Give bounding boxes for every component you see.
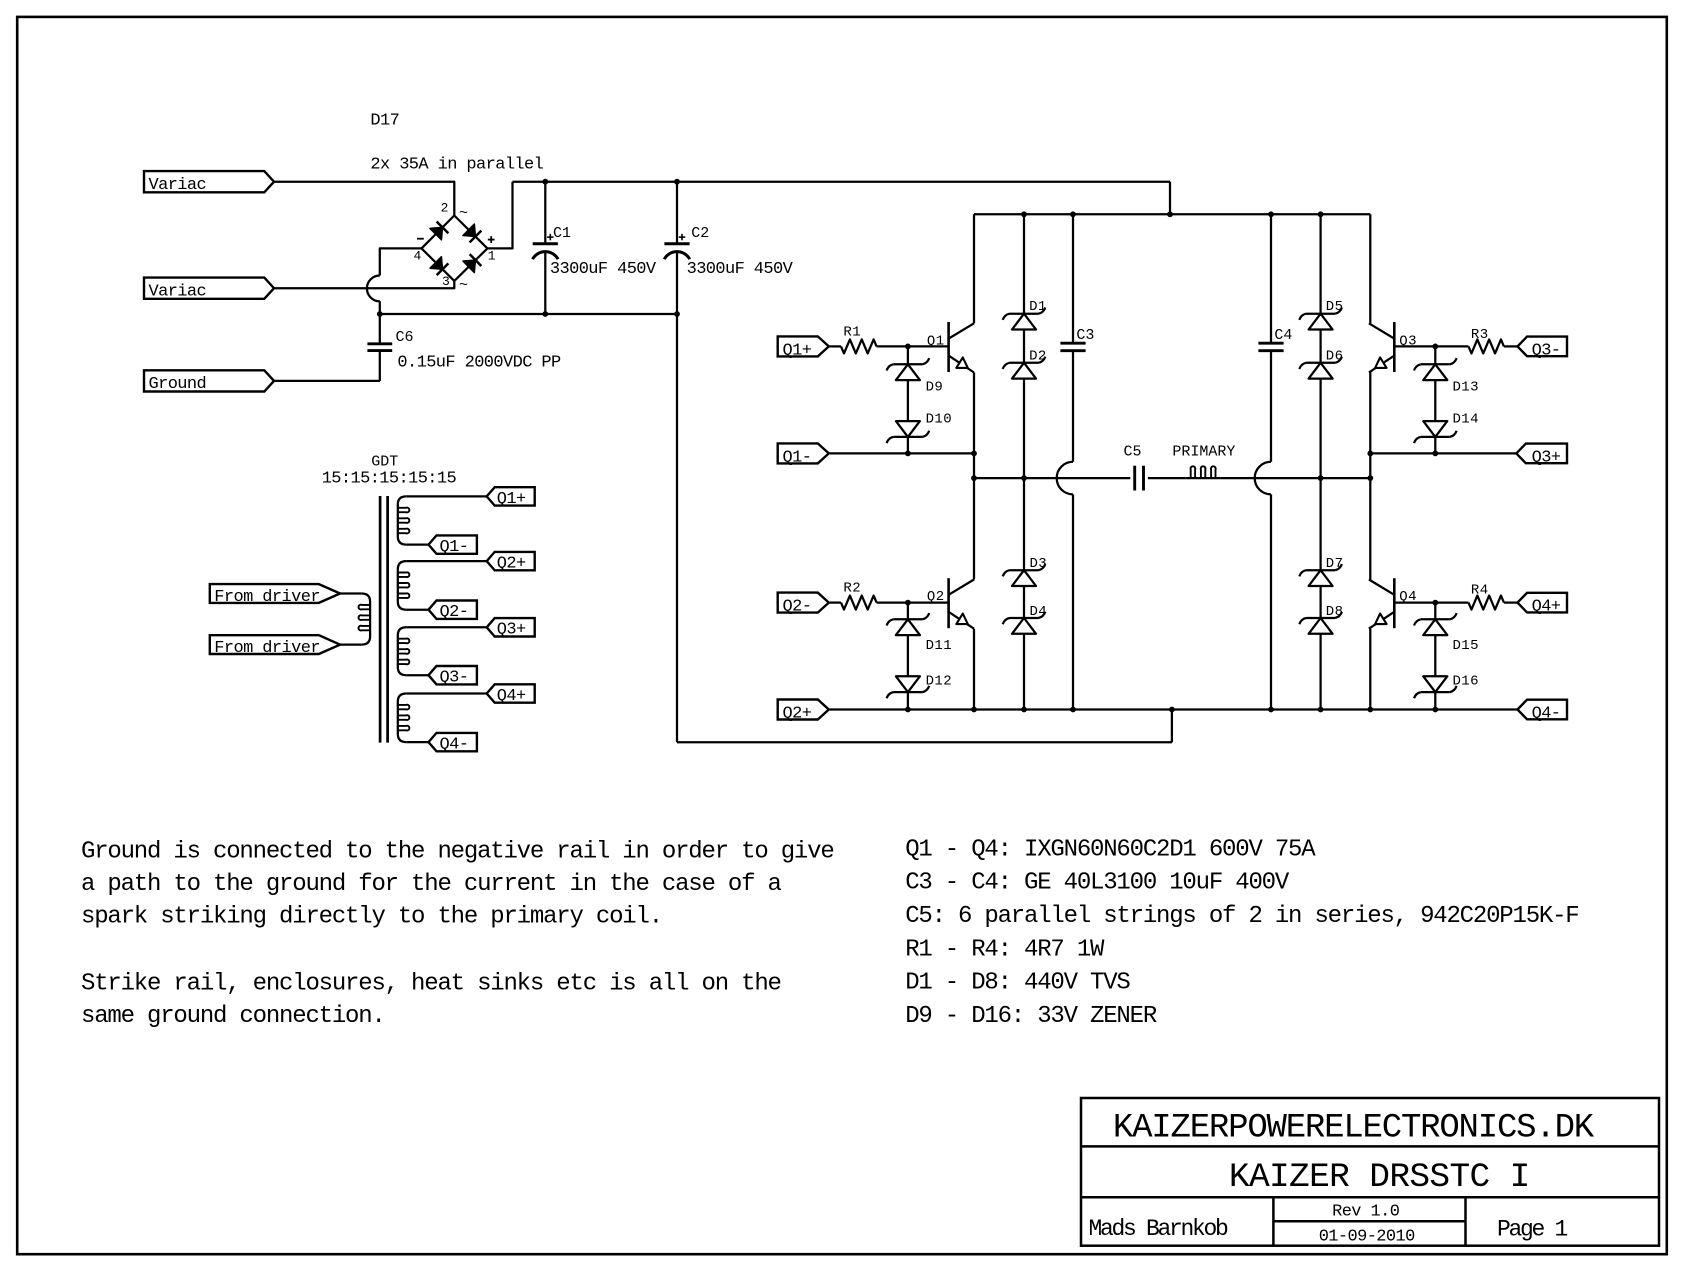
wire bridge pin 3 to Variac2 <box>274 281 454 288</box>
resistor R3 <box>1469 339 1504 353</box>
bus negative rail <box>380 313 677 315</box>
capacitor C1 <box>544 182 546 243</box>
svg-text:Q3+: Q3+ <box>1532 449 1561 468</box>
svg-text:Q3-: Q3- <box>1532 342 1561 361</box>
svg-text:R2: R2 <box>843 581 861 597</box>
capacitor C4 <box>1270 214 1272 343</box>
connector flag Q4+ (gate) <box>1518 593 1568 613</box>
svg-text:Q2+: Q2+ <box>783 705 812 724</box>
TVS D4 <box>1010 617 1039 619</box>
junction dots gate rows <box>905 344 911 350</box>
svg-text:Q2+: Q2+ <box>497 555 526 574</box>
wire Q3+ rail <box>1370 452 1516 454</box>
bridge diode 2-1 <box>463 224 476 237</box>
H-bridge midpoint rail (left) <box>974 477 1130 479</box>
svg-text:KAIZER DRSSTC I: KAIZER DRSSTC I <box>1229 1158 1530 1197</box>
svg-text:01-09-2010: 01-09-2010 <box>1319 1228 1415 1247</box>
svg-text:Q3+: Q3+ <box>497 621 526 640</box>
wire R4 to flag <box>1504 601 1518 603</box>
svg-text:Q1-: Q1- <box>440 538 469 557</box>
svg-text:From driver: From driver <box>214 588 320 607</box>
wire Q3 gate to R3 <box>1394 345 1468 347</box>
wire Q3 collector to top rail <box>1369 214 1371 323</box>
svg-text:D1: D1 <box>1029 299 1047 315</box>
connector flag Q4- (emitter) <box>1518 700 1568 720</box>
connector flag Q2+ (emitter) <box>778 700 829 720</box>
capacitor C2 <box>676 182 678 243</box>
svg-text:C5: 6 parallel strings of 2 in: C5: 6 parallel strings of 2 in series, 9… <box>905 903 1578 930</box>
svg-text:Q4+: Q4+ <box>497 687 526 706</box>
svg-text:~: ~ <box>459 277 468 294</box>
svg-text:15:15:15:15:15: 15:15:15:15:15 <box>322 469 457 488</box>
wire Q4 gate to R4 <box>1394 601 1468 603</box>
TVS D7 <box>1306 569 1335 571</box>
svg-text:C2: C2 <box>691 225 709 242</box>
connector flag Q3+ (emitter) <box>1516 444 1567 464</box>
connector flag Q1- (emitter) <box>778 443 829 463</box>
bridge plus mark <box>488 239 495 241</box>
H-bridge midpoint rail (right) <box>1148 477 1185 479</box>
H-bridge bottom rail <box>829 708 1518 710</box>
inductor PRIMARY <box>1185 477 1221 479</box>
zener D9 <box>893 363 922 365</box>
svg-text:D16: D16 <box>1453 673 1479 689</box>
connector flag Q3+ (GDT) <box>487 618 535 636</box>
connector flag Q1+ (GDT) <box>487 487 535 505</box>
connector flag From driver (top) <box>210 584 340 603</box>
svg-text:GDT: GDT <box>371 453 398 470</box>
svg-text:Variac: Variac <box>149 282 207 301</box>
connector flag Q2- (GDT) <box>429 601 477 619</box>
zener D12 <box>893 691 922 693</box>
transistor Q3 <box>1393 322 1396 372</box>
H-bridge top rail <box>974 213 1370 215</box>
svg-text:C3: C3 <box>1076 327 1094 344</box>
svg-text:Q1-: Q1- <box>783 449 812 468</box>
svg-text:Q1 - Q4: IXGN60N60C2D1 600V 75: Q1 - Q4: IXGN60N60C2D1 600V 75A <box>905 837 1316 864</box>
svg-text:D9 - D16: 33V ZENER: D9 - D16: 33V ZENER <box>905 1003 1157 1030</box>
svg-text:D17: D17 <box>370 111 399 130</box>
bridge minus mark <box>417 238 424 240</box>
connector flag Q3- (GDT) <box>429 666 477 684</box>
TVS D1 <box>1010 313 1039 315</box>
svg-text:Q4+: Q4+ <box>1532 598 1561 617</box>
TVS chain D3/D4 <box>1023 478 1025 570</box>
junction bottom rail / C1 <box>542 311 548 317</box>
bridge diode 4-3 <box>430 257 443 270</box>
svg-text:1: 1 <box>488 248 496 263</box>
connector flag Q2+ (GDT) <box>487 552 535 570</box>
TVS D2 <box>1010 362 1039 364</box>
wire C2 leg down to H-bridge bottom <box>676 314 678 742</box>
svg-text:D1 - D8: 440V TVS: D1 - D8: 440V TVS <box>905 970 1130 997</box>
svg-text:D4: D4 <box>1030 604 1048 620</box>
svg-text:R1 - R4: 4R7 1W: R1 - R4: 4R7 1W <box>905 937 1105 964</box>
wire bridge - down with hop over Variac2 wire <box>380 248 422 275</box>
svg-text:Q4-: Q4- <box>1532 705 1561 724</box>
svg-text:D5: D5 <box>1326 299 1344 315</box>
svg-text:3: 3 <box>442 274 450 289</box>
wire R1 to Q1 gate <box>877 345 949 347</box>
svg-text:Mads Barnkob: Mads Barnkob <box>1089 1216 1229 1242</box>
bridge rectifier D17 diamond <box>422 216 488 281</box>
GDT primary winding <box>340 592 362 594</box>
wire Q4 emitter to bottom rail <box>1369 629 1371 710</box>
svg-text:3300uF 450V: 3300uF 450V <box>687 260 794 279</box>
TVS chain D5/D6 <box>1319 214 1321 313</box>
capacitor C6 <box>367 342 392 345</box>
TVS chain D1/D2 <box>1023 214 1025 313</box>
resistor R1 <box>841 339 877 353</box>
connector flag Variac (bottom) <box>144 278 274 299</box>
connector flag Q1+ (gate) <box>778 336 829 356</box>
zener D11 <box>893 618 922 620</box>
svg-text:Rev 1.0: Rev 1.0 <box>1332 1203 1400 1222</box>
svg-text:0.15uF 2000VDC PP: 0.15uF 2000VDC PP <box>397 354 561 373</box>
wire Q1 collector to top rail <box>973 214 975 323</box>
main top rail <box>513 181 1171 183</box>
svg-text:From driver: From driver <box>214 639 320 658</box>
svg-text:R3: R3 <box>1471 327 1489 343</box>
wire flag to R2 <box>829 601 841 603</box>
riser top rail to H-bridge rail <box>1169 182 1171 215</box>
svg-text:spark striking directly to the: spark striking directly to the primary c… <box>81 903 662 930</box>
connector flag From driver (bottom) <box>210 635 340 654</box>
wire Q3 emitter down to midpoint <box>1369 373 1371 479</box>
GDT secondary winding 2 <box>406 560 487 562</box>
wire R2 to Q2 gate <box>877 601 949 603</box>
svg-text:Q3-: Q3- <box>440 669 469 688</box>
zener D13 <box>1421 363 1450 365</box>
capacitor C3 <box>1072 214 1074 343</box>
svg-text:D12: D12 <box>926 673 952 689</box>
wire R3 to flag <box>1504 345 1518 347</box>
connector flag Q4+ (GDT) <box>487 684 535 702</box>
connector flag Q3- (gate) <box>1518 337 1568 357</box>
GDT secondary winding 4 <box>406 692 487 694</box>
svg-text:D7: D7 <box>1326 556 1344 572</box>
GDT core <box>379 496 382 743</box>
svg-text:D6: D6 <box>1326 348 1344 364</box>
svg-text:3300uF 450V: 3300uF 450V <box>550 260 657 279</box>
capacitor C5 <box>1133 466 1136 491</box>
TVS D3 <box>1010 569 1039 571</box>
svg-text:C1: C1 <box>553 225 571 242</box>
wire Variac1 to bridge pin 2 <box>274 182 454 216</box>
wire Ground flag to C6 <box>274 380 380 382</box>
svg-text:Q1+: Q1+ <box>497 490 526 509</box>
zener D15 <box>1421 618 1450 620</box>
svg-text:Q1+: Q1+ <box>783 342 812 361</box>
TVS chain D7/D8 <box>1319 478 1321 570</box>
zener D14 <box>1421 436 1450 438</box>
junction top rail / C2 <box>674 179 680 185</box>
junction dots Q1-/Q3+ rails <box>905 451 911 457</box>
zener pair D9/D10 <box>907 346 909 364</box>
transistor Q1 <box>947 322 950 372</box>
svg-text:Q2-: Q2- <box>440 603 469 622</box>
resistor R2 <box>841 596 877 610</box>
bridge diode 4-2 <box>430 227 443 240</box>
zener D16 <box>1421 691 1450 693</box>
zener pair D15/D16 <box>1434 603 1436 620</box>
svg-text:D9: D9 <box>926 379 944 395</box>
svg-text:D14: D14 <box>1453 411 1479 427</box>
svg-text:D3: D3 <box>1030 556 1048 572</box>
wire Q2 emitter to bottom rail <box>973 629 975 710</box>
svg-text:Page 1: Page 1 <box>1497 1217 1568 1243</box>
connector flag Q4- (GDT) <box>429 733 477 751</box>
wire C3 hop over midpoint rail <box>1057 462 1073 495</box>
svg-text:R1: R1 <box>843 324 861 340</box>
svg-text:Variac: Variac <box>149 176 207 195</box>
junction dots bottom rail <box>905 707 911 713</box>
TVS D6 <box>1306 362 1335 364</box>
transistor Q2 <box>947 578 950 628</box>
TVS D8 <box>1306 617 1335 619</box>
junction top rail / C1 <box>542 179 548 185</box>
svg-text:same ground connection.: same ground connection. <box>81 1003 385 1030</box>
TVS D5 <box>1306 313 1335 315</box>
svg-text:Strike rail, enclosures, heat: Strike rail, enclosures, heat sinks etc … <box>81 971 781 998</box>
wire Q4 collector to midpoint <box>1369 478 1371 579</box>
wire flag to R1 <box>829 345 841 347</box>
bridge diode 3-1 <box>463 260 476 273</box>
svg-text:Ground is connected to the neg: Ground is connected to the negative rail… <box>81 839 834 866</box>
svg-text:Q4-: Q4- <box>440 736 469 755</box>
junction bottom rail / C2 <box>674 311 680 317</box>
svg-text:a path to the ground for the c: a path to the ground for the current in … <box>81 871 782 898</box>
svg-text:4: 4 <box>414 248 422 263</box>
junction dots midpoint rail <box>971 475 977 481</box>
svg-text:2: 2 <box>441 201 449 216</box>
svg-text:Ground: Ground <box>149 375 207 394</box>
connector flag Variac (top) <box>144 171 274 192</box>
svg-text:Q2-: Q2- <box>783 598 812 617</box>
wire Q1 emitter down to midpoint <box>973 373 975 479</box>
svg-text:2x 35A in parallel: 2x 35A in parallel <box>370 156 543 175</box>
transistor Q4 <box>1393 578 1396 628</box>
svg-text:C6: C6 <box>396 329 414 346</box>
wire Q1- rail <box>829 452 974 454</box>
svg-text:D15: D15 <box>1453 638 1479 654</box>
zener pair D13/D14 <box>1434 346 1436 364</box>
connector flag Q2- (gate) <box>778 593 829 613</box>
svg-text:D13: D13 <box>1453 379 1479 395</box>
GDT secondary winding 3 <box>406 626 487 628</box>
GDT secondary winding 1 <box>406 495 487 497</box>
svg-text:C3 - C4: GE 40L3100 10uF 400V: C3 - C4: GE 40L3100 10uF 400V <box>905 870 1290 897</box>
wire Q2 collector to midpoint <box>973 478 975 579</box>
svg-text:C5: C5 <box>1124 444 1142 461</box>
wire bridge + to top rail <box>487 182 512 249</box>
svg-text:R4: R4 <box>1471 583 1489 599</box>
wire C4 hop over midpoint rail <box>1255 462 1271 495</box>
zener pair D11/D12 <box>907 603 909 620</box>
svg-text:D11: D11 <box>926 638 952 654</box>
svg-text:~: ~ <box>459 205 468 222</box>
title block frame <box>1081 1098 1659 1246</box>
svg-text:C4: C4 <box>1274 327 1292 344</box>
svg-text:D2: D2 <box>1029 348 1047 364</box>
svg-text:KAIZERPOWERELECTRONICS.DK: KAIZERPOWERELECTRONICS.DK <box>1113 1109 1595 1147</box>
connector flag Q1- (GDT) <box>429 535 477 553</box>
junction dots H-bridge top rail <box>1021 211 1027 217</box>
resistor R4 <box>1469 596 1504 610</box>
svg-text:D10: D10 <box>926 411 952 427</box>
svg-text:D8: D8 <box>1326 604 1344 620</box>
connector flag Ground <box>144 370 274 391</box>
svg-text:PRIMARY: PRIMARY <box>1172 444 1235 461</box>
junction bottom rail / C6 / bridge minus <box>377 311 383 317</box>
zener D10 <box>893 436 922 438</box>
